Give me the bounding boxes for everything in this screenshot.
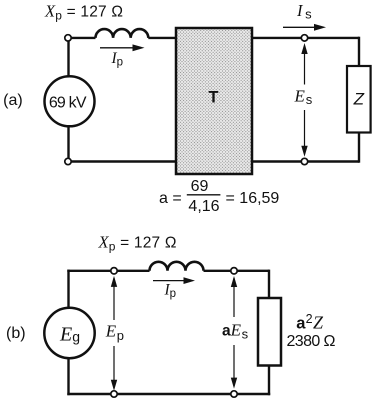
source Eg circle xyxy=(44,308,94,358)
wire top-left to inductor xyxy=(71,37,96,39)
right wire (b) top xyxy=(268,270,270,298)
svg-text:69 kV: 69 kV xyxy=(49,94,87,111)
wire transformer to right corner (top) xyxy=(252,37,359,39)
svg-text:2380 Ω: 2380 Ω xyxy=(287,333,336,350)
node terminal bottom-left (a) xyxy=(65,158,71,164)
svg-text:(b): (b) xyxy=(6,325,26,342)
svg-text:= 16,59: = 16,59 xyxy=(226,190,280,207)
wire right side bottom (a) xyxy=(358,133,360,163)
bottom wire (a) left of box xyxy=(71,160,176,162)
voltage arrows Ep xyxy=(113,278,115,320)
left wire (b) bottom xyxy=(67,358,69,395)
node on bottom wire (b) left xyxy=(111,391,117,397)
current arrow Ip (b) xyxy=(153,280,186,282)
wire inductor to transformer box xyxy=(148,37,176,39)
node on top wire (b) right xyxy=(231,268,237,274)
wire source top (a) xyxy=(67,41,69,77)
load box a2Z xyxy=(258,298,281,366)
svg-text:69: 69 xyxy=(191,178,209,195)
svg-text:Z: Z xyxy=(353,90,365,109)
left wire (b) top xyxy=(67,270,69,308)
voltage arrows aEs xyxy=(233,278,235,317)
svg-text:(a): (a) xyxy=(3,92,23,109)
current arrow Is xyxy=(283,26,316,28)
right wire (b) bottom xyxy=(268,366,270,396)
voltage arrows Es xyxy=(304,46,306,85)
svg-text:4,16: 4,16 xyxy=(188,198,219,215)
load Z box xyxy=(347,66,371,133)
top wire (b) right segment xyxy=(204,270,270,272)
transformer T box xyxy=(176,28,252,174)
svg-text:a =: a = xyxy=(159,190,182,207)
node terminal top-left (a) xyxy=(65,35,71,41)
node on top wire (b) left xyxy=(111,268,117,274)
inductor Xp (b) xyxy=(150,262,204,271)
node on top wire (a) secondary xyxy=(301,35,307,41)
bottom wire (a) right of box xyxy=(252,160,359,162)
wire right side top (a) xyxy=(358,37,360,66)
current arrow Ip (a) xyxy=(100,47,135,49)
node bottom (a) secondary xyxy=(301,158,307,164)
bottom wire (b) xyxy=(67,393,270,395)
source 69 kV circle xyxy=(45,76,95,126)
svg-text:T: T xyxy=(209,88,219,106)
wire source bottom (a) xyxy=(67,126,69,158)
top wire (b) left segment xyxy=(67,270,149,272)
node on bottom wire (b) right xyxy=(231,391,237,397)
inductor Xp (a) xyxy=(96,29,149,38)
